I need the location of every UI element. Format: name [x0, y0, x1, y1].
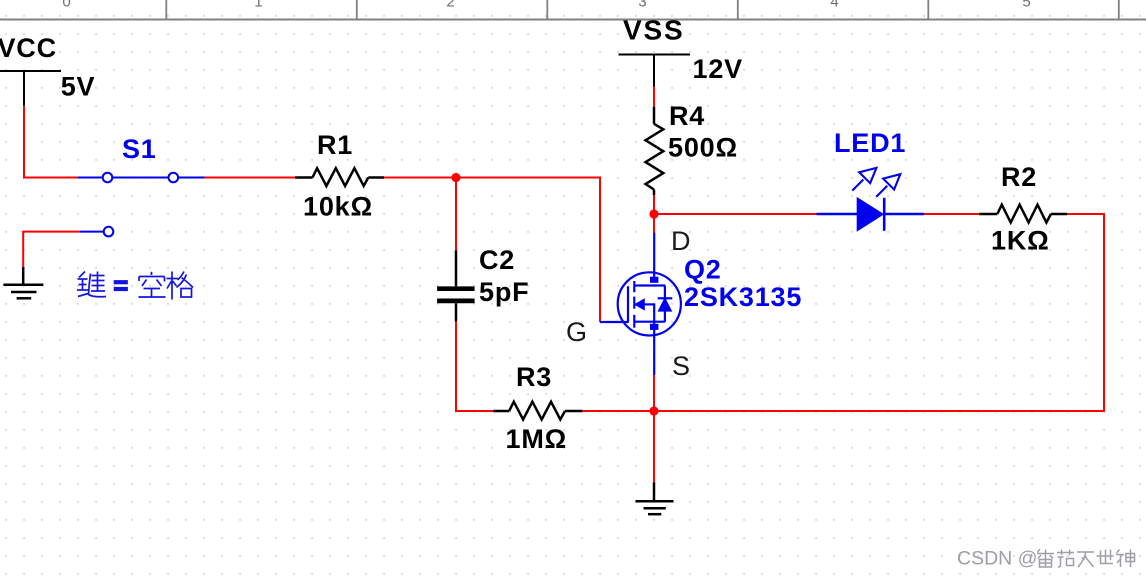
svg-text:3: 3	[638, 0, 646, 11]
svg-text:5V: 5V	[61, 72, 96, 102]
svg-text:Q2: Q2	[684, 255, 722, 285]
resistor R4	[646, 107, 664, 195]
resistor R1	[295, 168, 384, 186]
capacitor C2	[437, 250, 475, 321]
svg-text:VSS: VSS	[623, 15, 684, 46]
svg-text:C2: C2	[479, 245, 515, 275]
label key = space (Chinese)	[77, 272, 193, 300]
drain node junction	[649, 209, 658, 218]
svg-text:R3: R3	[516, 362, 552, 392]
LED LED1	[817, 168, 925, 231]
svg-text:5: 5	[1022, 0, 1030, 11]
svg-text:10kΩ: 10kΩ	[303, 191, 373, 221]
ruler bottom border	[0, 19, 1146, 21]
svg-text:1KΩ: 1KΩ	[991, 226, 1050, 256]
wire LED1 to R2	[924, 213, 979, 215]
svg-text:VCC: VCC	[0, 33, 57, 63]
svg-text:S1: S1	[122, 134, 157, 164]
svg-text:500Ω: 500Ω	[668, 133, 738, 163]
node A junction	[451, 173, 460, 182]
ruler separators	[165, 0, 1119, 19]
transistor Q2 MOSFET	[600, 233, 681, 376]
wire VCC to switch S1	[24, 106, 78, 178]
power VCC symbol	[0, 71, 61, 106]
svg-text:CSDN @: CSDN @	[957, 548, 1037, 570]
watermark Chinese glyphs	[1037, 549, 1135, 567]
svg-text:D: D	[671, 226, 691, 256]
wire switch throw 2 to ground	[23, 232, 79, 268]
svg-text:2SK3135: 2SK3135	[684, 282, 802, 312]
ground (source)	[636, 483, 674, 515]
switch S1	[78, 173, 205, 237]
wire R3 to source node	[582, 410, 654, 412]
resistor R2	[979, 205, 1067, 223]
svg-text:1: 1	[254, 0, 262, 11]
ground (switch)	[3, 267, 43, 298]
ruler numbers	[62, 0, 1030, 11]
svg-text:G: G	[566, 317, 588, 347]
svg-text:12V: 12V	[693, 54, 743, 84]
source node junction	[649, 406, 658, 415]
svg-text:1MΩ: 1MΩ	[506, 424, 568, 454]
svg-text:R4: R4	[669, 101, 705, 131]
wire drain node to LED1	[654, 213, 817, 215]
wire R4 to drain node to Q2 drain	[653, 195, 655, 233]
svg-text:2: 2	[446, 0, 454, 11]
wire R1 to node A and corner to gate	[384, 178, 600, 323]
power VSS symbol	[619, 55, 691, 87]
resistor R3	[493, 402, 582, 420]
svg-text:LED1: LED1	[834, 128, 906, 158]
wire switch S1 to R1	[205, 177, 296, 179]
svg-text:R2: R2	[1001, 162, 1037, 192]
wire Q2 source to node to ground	[653, 375, 655, 483]
wire source node to R2 loop	[654, 214, 1104, 411]
svg-text:5pF: 5pF	[479, 277, 529, 307]
wire VSS to R4	[653, 87, 655, 107]
svg-text:S: S	[672, 351, 691, 381]
svg-text:R1: R1	[317, 130, 353, 160]
wire C2 bottom to R3	[456, 321, 493, 411]
svg-text:0: 0	[62, 0, 70, 11]
wire node A down to C2	[455, 178, 457, 251]
svg-text:4: 4	[830, 0, 838, 11]
